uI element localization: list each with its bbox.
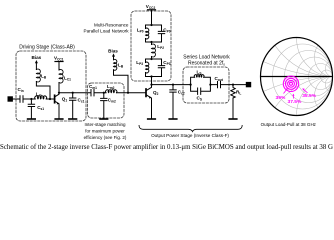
inductor LB2: [114, 59, 117, 70]
svg-text:Driving Stage (Class-AB): Driving Stage (Class-AB): [19, 45, 75, 51]
inductor LP1: [145, 25, 147, 42]
capacitor Cout: [210, 81, 246, 87]
wire collector row 1: [59, 92, 91, 94]
wire collector to load: [152, 84, 191, 86]
shunt capacitor Cc1: [70, 93, 76, 119]
inductor LC1: [59, 70, 63, 83]
node collector Q1: [58, 92, 60, 94]
node input: [30, 98, 32, 100]
brace output power stage: [139, 125, 242, 132]
contour arrows: [284, 88, 308, 98]
shunt capacitor Cc2: [170, 85, 176, 119]
ground RL: [229, 118, 237, 120]
wire LC1 to collector: [58, 83, 60, 93]
bias arrow 1: [35, 63, 37, 70]
svg-text:Resonated at 2fo: Resonated at 2fo: [188, 61, 225, 67]
node base Q2: [127, 92, 129, 94]
multi-resonance dashed box: [131, 11, 171, 81]
wire VCC1: [58, 62, 60, 71]
svg-text:Inter-stage matching: Inter-stage matching: [84, 122, 126, 127]
node collector Q2: [150, 84, 152, 86]
VCC1 supply bar: [55, 61, 63, 63]
VCC2 supply bar: [148, 9, 156, 11]
node Cc2: [172, 84, 174, 86]
load-pull contours: [283, 76, 298, 91]
wire Lm2 out: [117, 92, 146, 94]
smith chart axis: [261, 76, 333, 78]
series load network dashed box: [183, 67, 229, 103]
tank2 rails: [146, 59, 162, 77]
wire Lin: [31, 98, 53, 100]
node interstage: [103, 92, 105, 94]
svg-text:35.5%: 35.5%: [302, 93, 317, 99]
svg-text:37.5%: 37.5%: [288, 99, 303, 105]
svg-text:efficiency (see Fig. 2): efficiency (see Fig. 2): [84, 135, 127, 140]
driving stage dashed box: [16, 51, 86, 121]
smith chart outline: [261, 38, 333, 116]
ground Cm2: [100, 118, 108, 120]
ground Q2 emitter: [148, 118, 156, 120]
svg-text:Multi-Resonance: Multi-Resonance: [94, 23, 129, 28]
tank1 rails: [146, 25, 162, 42]
svg-text:Schematic of the 2-stage inver: Schematic of the 2-stage inverse Class-F…: [0, 142, 334, 151]
svg-text:Parallel Load Network: Parallel Load Network: [84, 28, 130, 33]
capacitor CS bottom branch: [191, 85, 211, 95]
node tank1 bottom: [150, 41, 152, 43]
node RL: [232, 84, 234, 86]
capacitor CP1: [158, 25, 164, 42]
output port: [246, 82, 250, 86]
inductor LP3: [145, 59, 147, 77]
node combo right: [209, 84, 211, 86]
ground Cc2: [169, 118, 177, 120]
svg-text:for maximum power: for maximum power: [85, 128, 125, 133]
svg-text:39%: 39%: [276, 95, 286, 101]
capacitor CP3: [158, 59, 164, 77]
svg-text:Output Load-Pull at 38 GHz: Output Load-Pull at 38 GHz: [261, 122, 317, 127]
node tank2 top: [150, 58, 152, 60]
node combo left: [190, 84, 192, 86]
wire input: [12, 98, 20, 100]
bias arrow 2: [113, 56, 115, 60]
capacitor Cin: [20, 96, 31, 102]
inter-stage matching dashed box: [88, 83, 125, 118]
shunt capacitor Cm2: [101, 93, 107, 119]
svg-text:Output Power Stage (Inverse Cl: Output Power Stage (Inverse Class-F): [151, 133, 229, 138]
transistor Q2: [145, 89, 147, 96]
wire tank to collector: [151, 77, 153, 85]
wire bias2 to base: [114, 70, 129, 93]
node Cc1: [72, 92, 74, 94]
node tank1 top: [150, 24, 152, 26]
ground Q1 emitter: [55, 118, 63, 120]
inductor Lin: [35, 96, 47, 99]
wire VCC2: [151, 10, 153, 25]
inductor LP2: [151, 42, 153, 59]
input port: [8, 97, 12, 101]
shunt capacitor Cs1: [28, 99, 34, 119]
inductor LB1: [36, 69, 40, 82]
inductor Lm2: [106, 90, 117, 93]
capacitor Cm1 series: [91, 90, 106, 96]
svg-text:Bias: Bias: [32, 55, 42, 60]
wire bias1 to base: [36, 82, 50, 100]
ground Cs1: [28, 118, 36, 120]
resistor RL: [231, 85, 235, 119]
inductor LS top branch: [191, 77, 211, 84]
smith chart grid: [153, 0, 334, 240]
transistor Q1: [54, 95, 56, 102]
node base Q1: [49, 98, 51, 100]
ground Cc1: [69, 118, 77, 120]
node tank2 bottom: [150, 75, 152, 77]
svg-text:Bias: Bias: [108, 48, 118, 53]
